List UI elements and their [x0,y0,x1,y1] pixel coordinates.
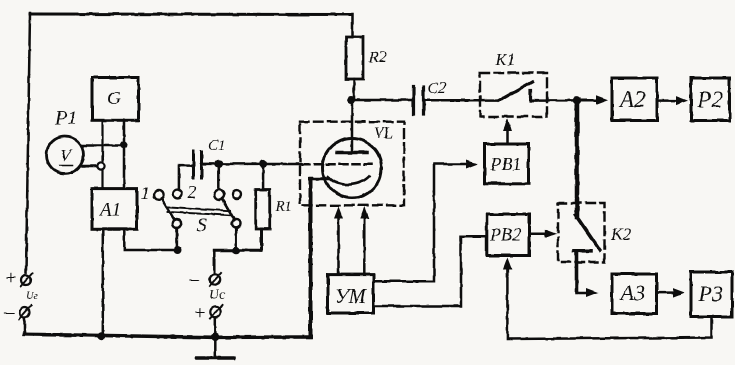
svg-text:–: – [188,268,200,290]
svg-text:Р2: Р2 [697,87,724,112]
svg-text:G: G [107,88,121,109]
svg-text:Р3: Р3 [698,281,723,306]
svg-text:А3: А3 [619,280,645,305]
svg-text:С2: С2 [428,80,447,97]
svg-text:S: S [197,215,207,236]
svg-text:1: 1 [141,183,150,203]
svg-text:Uс: Uс [209,288,226,303]
svg-text:Uг: Uг [26,290,39,302]
svg-text:УМ: УМ [335,284,368,308]
svg-text:R2: R2 [368,49,387,66]
svg-text:К1: К1 [495,50,516,69]
svg-text:–: – [3,301,15,323]
svg-text:А2: А2 [618,87,646,112]
svg-text:С1: С1 [208,138,226,154]
svg-text:+: + [4,267,18,289]
svg-text:R1: R1 [275,199,293,215]
svg-text:VL: VL [374,125,393,142]
svg-text:Р1: Р1 [54,107,77,129]
svg-text:РВ1: РВ1 [490,154,522,174]
svg-text:+: + [193,302,207,324]
svg-text:2: 2 [188,182,197,202]
svg-text:РВ2: РВ2 [489,225,521,245]
svg-text:А1: А1 [98,200,121,221]
svg-text:К2: К2 [611,225,632,244]
